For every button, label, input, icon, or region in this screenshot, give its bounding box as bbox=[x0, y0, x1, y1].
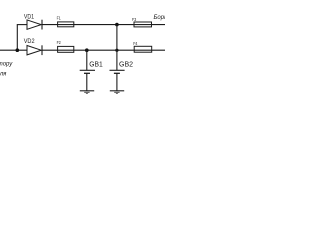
svg-text:К генератору: К генератору bbox=[0, 62, 13, 68]
node B junction dot row1 bbox=[115, 23, 119, 27]
wire GB2 to ground bbox=[116, 73, 118, 91]
wire vertical branch left bbox=[16, 25, 18, 51]
svg-text:GB2: GB2 bbox=[119, 62, 133, 69]
battery GB1 bbox=[80, 70, 95, 73]
svg-text:VD2: VD2 bbox=[24, 38, 35, 45]
diode VD1 bbox=[27, 20, 42, 30]
svg-text:F3: F3 bbox=[132, 17, 137, 22]
svg-text:VD1: VD1 bbox=[24, 14, 35, 21]
fuse F3 bbox=[134, 22, 152, 27]
wire GB1 drop bbox=[86, 50, 88, 70]
battery GB2 bbox=[110, 70, 125, 73]
node D junction dot GB1 tap bbox=[85, 48, 89, 52]
wire GB1 to ground bbox=[86, 73, 88, 91]
svg-text:автомобиля: автомобиля bbox=[0, 71, 7, 77]
wire row 1 anode segment bbox=[17, 24, 28, 26]
node A junction dot left bbox=[15, 48, 19, 52]
fuse F1 bbox=[58, 22, 74, 27]
svg-text:GB1: GB1 bbox=[89, 62, 103, 69]
wire row 2 cathode to right edge bbox=[42, 49, 165, 51]
ground GB1 bbox=[80, 91, 94, 94]
svg-text:F2: F2 bbox=[57, 40, 62, 45]
wire GB2 drop from row1 bbox=[116, 25, 118, 71]
diode VD2 bbox=[27, 45, 42, 55]
wire row 1 cathode to right edge bbox=[42, 24, 165, 26]
svg-text:F1: F1 bbox=[57, 16, 62, 21]
wire input from generator (row 2 left) bbox=[0, 49, 28, 51]
svg-text:F4: F4 bbox=[133, 41, 138, 46]
node C junction dot row2 bbox=[115, 49, 118, 52]
fuse F4 bbox=[134, 46, 152, 52]
svg-text:Бортовая сеть: Бортовая сеть bbox=[154, 15, 166, 21]
ground GB2 bbox=[110, 91, 124, 94]
fuse F2 bbox=[58, 46, 74, 52]
